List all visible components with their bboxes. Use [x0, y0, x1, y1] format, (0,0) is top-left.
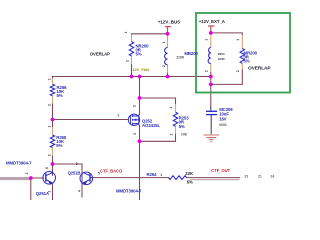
svg-text:2: 2 — [170, 134, 174, 136]
svg-text:2: 2 — [204, 70, 208, 72]
svg-text:2: 2 — [162, 65, 166, 67]
svg-text:1: 1 — [236, 39, 240, 41]
svg-text:21: 21 — [258, 175, 262, 179]
svg-text:3: 3 — [133, 133, 137, 135]
svg-text:CTF_BACO: CTF_BACO — [100, 169, 123, 174]
svg-text:5%: 5% — [187, 179, 193, 184]
svg-text:220R: 220R — [176, 55, 184, 59]
svg-text:1: 1 — [160, 173, 162, 177]
svg-text:MB200: MB200 — [184, 51, 198, 56]
svg-text:22K: 22K — [185, 171, 194, 176]
svg-text:DNI: DNI — [181, 133, 187, 137]
svg-text:5%: 5% — [57, 93, 63, 98]
svg-text:5%: 5% — [179, 124, 185, 129]
svg-text:2: 2 — [47, 154, 51, 156]
svg-text:2: 2 — [133, 105, 137, 107]
svg-text:220R: 220R — [218, 57, 226, 61]
svg-text:24: 24 — [271, 175, 275, 179]
svg-text:1: 1 — [48, 191, 52, 193]
svg-text:2: 2 — [25, 172, 29, 174]
svg-text:MMDT3904-7: MMDT3904-7 — [116, 188, 142, 193]
svg-text:OVERLAP: OVERLAP — [90, 52, 110, 57]
svg-text:1: 1 — [117, 114, 119, 118]
svg-text:1: 1 — [162, 41, 166, 43]
svg-text:12V_FAN: 12V_FAN — [132, 67, 149, 72]
svg-text:+12V_BUS: +12V_BUS — [158, 19, 180, 24]
svg-text:+12V_EXT_A: +12V_EXT_A — [199, 19, 226, 24]
svg-text:5: 5 — [98, 172, 100, 176]
svg-text:R264: R264 — [147, 172, 158, 177]
svg-text:6: 6 — [45, 167, 49, 169]
svg-text:5%: 5% — [244, 59, 250, 64]
svg-text:1: 1 — [48, 126, 52, 128]
svg-text:0603: 0603 — [219, 123, 226, 127]
svg-text:AO3415L: AO3415L — [142, 123, 160, 128]
svg-text:CTF_OUT: CTF_OUT — [211, 168, 230, 173]
svg-text:1: 1 — [169, 107, 173, 109]
svg-text:1: 1 — [48, 78, 52, 80]
svg-text:5%: 5% — [136, 52, 142, 57]
svg-text:3: 3 — [76, 162, 78, 166]
svg-text:B200: B200 — [218, 52, 225, 56]
svg-text:2: 2 — [236, 70, 240, 72]
svg-text:Q251B: Q251B — [68, 170, 81, 175]
svg-text:1: 1 — [124, 31, 128, 33]
svg-text:23: 23 — [245, 175, 249, 179]
svg-text:MMDT3904-7: MMDT3904-7 — [6, 160, 32, 165]
svg-text:16V: 16V — [219, 116, 227, 121]
svg-text:2: 2 — [126, 60, 130, 62]
svg-text:5%: 5% — [56, 143, 62, 148]
svg-text:1: 1 — [204, 39, 208, 41]
svg-text:2: 2 — [48, 104, 52, 106]
svg-text:4: 4 — [78, 190, 82, 192]
svg-text:OVERLAP: OVERLAP — [248, 66, 271, 72]
